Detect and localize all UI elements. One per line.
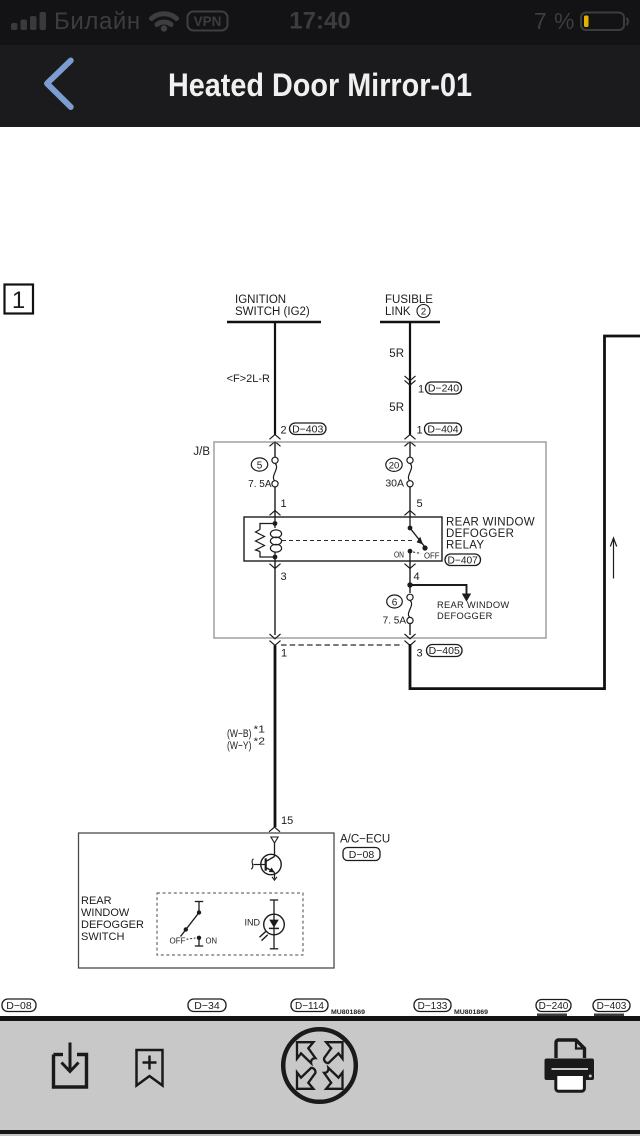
fuse 20 number [386,458,402,471]
wire colour label (W-Y)*2 [227,736,265,753]
printer icon [545,1040,595,1091]
svg-text:*2: *2 [254,736,266,748]
code fragment under D-240 [537,1014,567,1017]
svg-text:4: 4 [414,571,420,583]
svg-text:3: 3 [417,648,423,660]
svg-text:D−404: D−404 [427,424,458,436]
svg-text:2: 2 [421,307,426,318]
svg-text:*1: *1 [254,724,266,736]
svg-text:1: 1 [417,425,423,437]
svg-text:OFF: OFF [424,551,440,561]
input triangle marker [271,837,278,843]
svg-text:D−240: D−240 [539,1001,569,1012]
chevron into relay pin 1 [270,511,281,516]
relay coil [270,530,281,552]
ignition switch terminal bar [227,321,321,324]
chevrons at D-240 [405,376,416,385]
svg-text:IND: IND [245,918,261,928]
svg-text:1: 1 [418,384,424,396]
current direction arrow [610,538,616,579]
signal bars [11,12,46,30]
svg-text:RELAY: RELAY [446,540,484,552]
connector D-240 [426,382,462,395]
svg-text:D−405: D−405 [429,645,460,657]
svg-text:SWITCH (IG2): SWITCH (IG2) [235,306,310,318]
bookmark plus icon [137,1050,163,1086]
junction dot branch [407,582,412,587]
svg-text:7. 5A: 7. 5A [383,616,407,627]
circled 2 (fusible link number) [417,305,430,318]
chevrons at D-403 [270,435,281,447]
svg-text:A/C−ECU: A/C−ECU [340,834,390,846]
svg-text:DEFOGGER: DEFOGGER [446,528,514,540]
svg-text:REAR: REAR [81,895,112,907]
svg-text:<F>2L-R: <F>2L-R [227,373,270,385]
fuse 6 [407,594,413,623]
fuse 5 [272,457,278,487]
toolbar top border [0,1016,640,1021]
heavy wire right branch to edge [410,336,640,689]
fuse 5 number [251,458,267,471]
chevron relay pin 3 [270,564,281,569]
svg-text:ON: ON [394,550,404,560]
svg-text:LINK: LINK [385,306,411,318]
svg-text:3: 3 [281,571,287,583]
svg-text:D−08: D−08 [6,1000,32,1012]
transistor base squiggle [251,859,253,869]
svg-text:D−240: D−240 [428,383,459,395]
relay coil junction dots [273,521,278,559]
relay name label [446,517,535,552]
svg-text:OFF: OFF [170,936,186,946]
download icon [54,1043,87,1088]
svg-text:D−08: D−08 [349,849,375,861]
bottom connector D-403 (bottom row) [593,1000,630,1013]
fuse 20 [407,457,413,487]
svg-text:D−403: D−403 [597,1001,627,1012]
connector D-405 [427,645,463,658]
relay dashed actuator line [282,540,415,542]
toolbar icons [0,1021,640,1130]
svg-text:DEFOGGER: DEFOGGER [81,919,144,931]
relay resistor [256,530,265,552]
sheet number box 1 [5,285,34,315]
svg-text:7. 5A: 7. 5A [248,479,272,490]
relay switch [408,517,428,561]
svg-text:5R: 5R [389,402,404,414]
VPN badge [188,12,228,31]
chevrons at D-404 [405,435,416,447]
svg-text:20: 20 [389,461,400,472]
wire relay pin 4 down [409,561,411,593]
wire: ignition switch to J/B [274,322,276,435]
svg-text:(W−B): (W−B) [227,728,252,740]
svg-text:30A: 30A [385,478,404,490]
connector D-407 [445,554,481,566]
wire: fuse 20 branch [409,442,411,517]
back chevron [0,45,90,127]
svg-text:FUSIBLE: FUSIBLE [385,294,433,306]
wifi icon [152,14,177,25]
bottom connector D-240 [536,1000,571,1013]
code fragment under D-403 [594,1014,624,1017]
status bar contents [0,0,640,45]
defogger relay box [244,517,442,561]
connector D-405 dashed line [281,644,403,646]
ignition switch label [235,294,310,318]
svg-text:1: 1 [281,498,287,510]
A/C-ECU box [79,833,335,968]
svg-text:5: 5 [257,460,263,471]
svg-text:ON: ON [206,936,218,946]
svg-text:MU801869: MU801869 [454,1009,489,1016]
svg-text:REAR WINDOW: REAR WINDOW [446,517,535,529]
bottom connector D-133 [414,999,451,1012]
svg-text:15: 15 [281,815,293,827]
svg-text:2: 2 [281,425,287,437]
rear window defogger text [437,600,510,621]
rear window defogger switch label [81,895,144,943]
svg-text:D−34: D−34 [194,1000,220,1012]
svg-text:D−403: D−403 [292,424,323,436]
svg-text:5R: 5R [389,348,404,360]
connector D-403 [290,423,327,436]
status bar [0,0,640,45]
wire relay pin 3 to J/B bottom [274,561,276,635]
connector D-404 [425,423,462,436]
svg-text:D−407: D−407 [448,555,479,566]
svg-text:DEFOGGER: DEFOGGER [437,611,493,621]
svg-text:WINDOW: WINDOW [81,907,130,919]
svg-text:J/B: J/B [193,446,210,458]
fusible link terminal bar [380,321,440,324]
svg-text:6: 6 [392,597,398,608]
expand arrows circle button [283,1029,356,1102]
svg-text:REAR WINDOW: REAR WINDOW [437,600,510,610]
connector D-08 (ECU) [343,848,380,862]
chevron into relay pin 5 [405,511,416,516]
svg-text:D−114: D−114 [295,1001,324,1012]
chevron relay pin 4 [405,564,416,569]
relay coil branch wires [260,517,275,561]
svg-text:1: 1 [281,648,287,660]
bottom connector D-34 [188,999,226,1012]
chevron pin 15 [269,827,280,832]
dashed switch group box [157,893,303,955]
toolbar [0,1021,640,1130]
svg-text:D−133: D−133 [418,1001,448,1012]
nav title [32,67,608,104]
chevrons J/B bottom right [405,634,416,645]
branch arrow to rear window defogger [410,585,471,602]
bottom connector D-114 [291,999,328,1012]
toolbar bottom black bar [0,1130,640,1134]
wire: fuse 5 branch [274,442,276,517]
wire colour label (W-B)*1 [227,724,265,741]
svg-text:SWITCH: SWITCH [81,931,124,943]
fusible link label [385,294,433,318]
J/B box [214,442,546,638]
svg-text:(W−Y): (W−Y) [227,740,252,752]
defogger switch symbol [181,902,204,947]
svg-text:5: 5 [417,498,423,510]
LED light rays [260,932,268,941]
wire fuse 6 to J/B bottom [409,624,411,636]
navigation bar [0,45,640,127]
chevrons J/B bottom left [270,634,281,645]
fuse 6 number [387,595,403,608]
wire: fusible link to J/B [409,322,411,435]
svg-text:IGNITION: IGNITION [235,294,286,306]
transistor Q1 [254,843,282,880]
svg-text:1: 1 [12,287,25,314]
svg-text:MU801869: MU801869 [331,1009,366,1016]
battery icon [581,13,624,31]
indicator LED [264,900,285,949]
bottom connector D-08 [2,999,36,1012]
heavy wire to A/C-ECU [274,645,277,827]
